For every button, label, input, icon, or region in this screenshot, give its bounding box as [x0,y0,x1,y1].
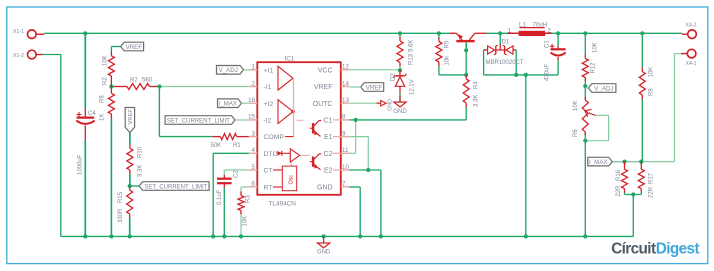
connector X1-1 [28,30,45,39]
label C1 [545,40,551,48]
junction C4 top [83,31,87,35]
wire collector bus to R4 [356,119,467,121]
wire IC pin 10 E2 to GND rail [349,170,381,236]
wire VREF flag to R2 [111,47,120,52]
svg-text:50K: 50K [211,143,222,149]
junction bottom rail R15 [128,234,132,238]
svg-text:R13: R13 [409,53,415,65]
svg-text:SET_CURRENT_LIMIT: SET_CURRENT_LIMIT [144,184,207,190]
svg-text:R5: R5 [445,40,451,48]
wire ground return to GND rail [525,75,527,237]
junction collectors C1+C2 [354,118,358,122]
svg-text:X4-2: X4-2 [686,23,697,29]
svg-text:+I1: +I1 [264,67,274,74]
svg-text:I_MAX: I_MAX [218,101,237,108]
wire R6 wiper loop [585,115,608,140]
svg-text:E1: E1 [324,134,333,141]
svg-text:10K: 10K [649,67,655,78]
label R4 [474,81,480,89]
junction V_ADJ node [583,84,587,88]
connector X1-2 [28,50,43,59]
wire VIN top rail X1-1 to transistor [44,32,449,34]
svg-text:V_ADJ: V_ADJ [594,85,613,92]
junction bottom rail C4 [83,234,87,238]
wire IC pin 6 RT to R3 [241,187,249,192]
ground GND below IC [317,236,331,255]
label R7 value 560 [142,78,153,84]
wire rail to C1 [557,33,559,46]
svg-text:R17: R17 [649,172,655,184]
junction bottom rail R6 [583,234,587,238]
svg-text:VCC: VCC [318,67,333,74]
resistor R4 [463,75,469,107]
wire I_MAX node to X4-1 [612,54,681,162]
label IC1 [285,56,295,63]
junction ground return drop [524,73,528,77]
junction transistor base upper [464,48,468,52]
wire node A to IC pin 2 (-I1) [159,86,249,88]
svg-text:11: 11 [342,147,349,154]
IC1 internal bus [285,78,310,155]
junction R5 top [437,31,441,35]
junction bottom rail D1 return [524,234,528,238]
diode D2 zener 12.1V [394,70,407,102]
IC1 comparator 2 [278,100,293,124]
IC1 right pin numbers 12 14 13 8 9 11 10 7 [342,64,349,188]
junction bottom rail emitters [379,234,383,238]
wire R4 to collector bus [465,107,467,120]
label X4-1 [686,61,697,67]
wire X1-2 to GND rail [43,55,61,237]
svg-text:3.3K: 3.3K [138,165,144,177]
wire rail to R12 [584,33,586,54]
IC1 oscillator block [273,166,297,191]
label L1 [519,22,526,29]
label X1-1 [13,29,24,35]
svg-text:70uH: 70uH [533,22,548,29]
svg-text:5: 5 [252,164,256,171]
wire shunt node to GND rail [632,195,634,237]
wire D1 right anode to GND wire [514,50,516,75]
junction R13 top [398,31,402,35]
svg-text:+I2: +I2 [264,101,274,108]
wire IC pin 12 VCC to D2 node [349,69,400,71]
svg-text:10K: 10K [573,100,579,111]
label R10 value 3.3K [138,165,144,177]
svg-text:6: 6 [252,181,256,188]
svg-text:X4-1: X4-1 [686,61,697,67]
svg-text:X1-1: X1-1 [13,29,24,35]
svg-text:10K: 10K [103,55,109,66]
wire VREF flag to R10 [129,133,131,145]
junction D1 cathode [498,31,502,35]
svg-text:470uF: 470uF [545,64,551,81]
junction bottom rail GND symbol stub [322,234,326,238]
wire R12 to R6 node [584,82,586,87]
wire R5 to base node [439,66,466,75]
svg-text:IC1: IC1 [285,56,295,63]
wire R9 to I_MAX node [641,99,643,162]
junction R6 wiper/bottom [583,139,587,143]
wire R6 to GND rail [584,133,586,236]
svg-text:14: 14 [342,80,349,87]
svg-text:C2: C2 [324,151,333,158]
resistor R1 [212,134,249,140]
wire GND bottom rail [61,235,634,237]
wire IC pin 8 C1 to collector node [349,119,355,121]
resistor R8 [108,87,114,237]
label X4-2 [686,23,697,29]
net flag V_ADJ at R12 [585,84,616,93]
label R9 value 10K [649,67,655,78]
IC1 left pin names [264,67,285,191]
label R5 value 10k [445,55,451,66]
resistor R12 [582,54,588,81]
svg-text:V_ADJ: V_ADJ [219,67,238,74]
label D1 [502,40,510,46]
label X1-2 [13,53,24,59]
junction C1 top [556,31,560,35]
IC1 left pin numbers 1 2 16 15 3 4 5 6 [248,64,255,188]
svg-text:2: 2 [252,80,256,87]
svg-text:L1: L1 [519,22,526,29]
label R15 [118,191,124,203]
label D2 [391,73,397,81]
svg-text:3.3K: 3.3K [474,95,480,107]
label R2 value 10K [103,55,109,66]
svg-text:12.1V: 12.1V [410,79,416,95]
svg-text:R15: R15 [118,191,124,203]
svg-text:R8: R8 [100,95,106,103]
net flag VREF at pin 14 [349,83,384,92]
label D1 value MBR10020CT [486,60,524,66]
resistor R13 [397,37,403,67]
svg-text:560: 560 [142,78,153,84]
svg-text:1K: 1K [100,114,106,121]
resistor R17 [638,162,644,193]
svg-text:R3: R3 [246,195,252,203]
junction VCC/D2 node [398,68,402,72]
resistor R3 [238,192,244,215]
svg-text:GND: GND [393,109,407,115]
net flag SET_CURRENT_LIMIT at pin 15 [165,116,249,125]
label R15 value 330R [118,208,124,223]
net flag I_MAX at pin 16 [218,99,249,108]
wire R3 to GND rail [240,215,242,237]
transistor Q1 PNP [449,33,487,50]
svg-text:MBR10020CT: MBR10020CT [486,60,524,66]
svg-text:SET_CURRENT_LIMIT: SET_CURRENT_LIMIT [167,118,230,124]
capacitor C4 [76,33,95,236]
IC1 DTC comparator [290,149,299,166]
svg-text:OUTC: OUTC [313,101,333,108]
junction R16/R17 bottom [631,192,635,196]
wire IC pin 4 DTC to GND rail [213,153,249,236]
svg-text:7: 7 [342,181,346,188]
label R10 [138,146,144,158]
IC1 output transistor Q_a [310,120,341,137]
net flag V_ADJ at pin 1 [217,66,249,75]
wire rail to R9 [641,33,643,67]
svg-text:22R: 22R [649,186,655,198]
svg-text:D1: D1 [502,40,510,46]
IC1 right pin names [313,67,333,191]
wire IC pin 7 GND to rail [349,187,360,236]
IC1 DTC diode [277,151,291,156]
svg-text:10k: 10k [445,55,451,66]
svg-text:GND: GND [317,184,333,191]
resistor R9 [639,68,645,100]
wire rail to R5 [438,33,440,37]
label R7 [130,78,138,84]
label R13 value 5.6K [409,40,415,52]
wire IC pin 9 E1 join E2 [349,137,368,170]
svg-text:10K: 10K [243,216,249,227]
resistor R15 [127,186,133,236]
svg-text:TL494CN: TL494CN [269,201,297,208]
wire I_MAX node to R16 R17 tops [612,161,644,163]
label R3 value 10K [243,216,249,227]
svg-text:16: 16 [248,97,255,104]
wire R16 R17 bottoms join [625,193,642,195]
label R3 [246,195,252,203]
ground GND at pin 13 [377,99,394,111]
svg-text:GND: GND [317,250,331,256]
capacitor C1 [550,44,566,60]
junction bottom rail C2 [222,234,226,238]
net flag VREF at R10 [125,108,134,133]
connector X4-2 [682,30,696,39]
junction R17/R9 top [639,160,643,164]
label R17 [649,172,655,184]
capacitor C2 [217,175,232,188]
svg-text:R9: R9 [649,88,655,96]
svg-text:0.1uF: 0.1uF [217,189,223,205]
net flag VREF at R2 [121,42,144,51]
wire C2 to GND rail [223,188,225,237]
svg-text:CT: CT [264,168,273,175]
label R17 value 22R [649,186,655,198]
ground GND below D2 [393,96,407,115]
resistor R2 [108,51,114,87]
svg-text:22R: 22R [616,185,622,197]
svg-text:4: 4 [252,147,256,154]
wire C1 to ground return [557,60,559,75]
svg-text:R6: R6 [573,129,579,137]
label C2 value 0.1uF [217,189,223,205]
label D2 value 12.1V [410,79,416,95]
svg-text:-I1: -I1 [264,84,272,91]
svg-text:9: 9 [342,130,346,137]
svg-text:10: 10 [342,164,349,171]
op-amp IC U1 TL494CN body [249,62,349,195]
svg-text:C2: C2 [234,170,240,178]
net flag SET_CURRENT_LIMIT lower [130,182,209,191]
svg-text:5.6K: 5.6K [409,40,415,52]
svg-text:C1: C1 [545,40,551,48]
junction bottom rail R8 [109,234,113,238]
IC1 output transistor Q_b [310,153,341,170]
wire D1/C1 ground return [484,74,558,76]
svg-text:VREF: VREF [128,109,134,125]
svg-text:E2: E2 [324,168,333,175]
resistor R5 [436,38,442,67]
svg-text:R4: R4 [474,81,480,89]
label L1 value 70uH [533,22,548,29]
svg-text:12: 12 [342,64,349,71]
label R6 value 10K [573,100,579,111]
junction bottom rail DTC wire [211,234,215,238]
wire VOUT top rail transistor to X4-2 [487,32,683,34]
junction emitters E1+E2 [366,168,370,172]
label TL494CN [269,201,297,208]
wire transistor base node [465,44,467,75]
wire V_ADJ node to R6 [584,86,586,99]
svg-text:10K: 10K [593,42,599,53]
svg-text:-I2: -I2 [264,118,272,125]
svg-text:330R: 330R [118,208,124,223]
svg-text:Digest: Digest [656,240,700,257]
junction bottom rail R3 [239,234,243,238]
svg-text:1000uF: 1000uF [78,154,84,175]
svg-text:Osc: Osc [288,175,294,185]
IC1 internal node dot [291,110,295,114]
label R8 [100,95,106,103]
wire D1 left anode to GND wire [484,50,486,75]
svg-text:VREF: VREF [366,84,383,91]
svg-text:DTC: DTC [264,151,278,158]
svg-text:R12: R12 [591,62,597,74]
label R4 value 3.3K [474,95,480,107]
wire rail to R13 [399,33,401,37]
svg-text:R2: R2 [103,77,109,85]
svg-text:R1: R1 [233,143,241,149]
junction R9 top [640,31,644,35]
junction bottom rail IC pin7 [358,234,362,238]
label R8 value 1K [100,114,106,121]
svg-text:Círcuit: Círcuit [611,240,656,257]
svg-text:13: 13 [342,97,349,104]
label C1 value 470uF [545,64,551,81]
svg-text:X1-2: X1-2 [13,53,24,59]
L1 pin number 1 [508,29,512,35]
label R16 value 22R [616,185,622,197]
svg-text:R16: R16 [616,169,622,181]
svg-text:8: 8 [342,114,346,121]
svg-text:C1: C1 [324,118,333,125]
label R5 [445,40,451,48]
potentiometer R6 10K [582,97,595,135]
junction R2/R7/R8 node [109,84,113,88]
resistor R7 [113,84,158,90]
junction R12 top [583,31,587,35]
svg-text:COMP: COMP [264,134,285,141]
svg-text:RT: RT [264,184,273,191]
label R1 [233,143,241,149]
diode D1 MBR10020CT [484,44,517,55]
junction D1 right anode [514,73,518,77]
label R12 value 10K [593,42,599,53]
label R13 [409,53,415,65]
junction R16 top [622,160,626,164]
label R16 [616,169,622,181]
junction SET_CURRENT_LIMIT node [128,184,132,188]
label R12 [591,62,597,74]
inductor L1 [507,28,552,36]
wire node A to R1 (feedback) [159,87,212,137]
svg-text:C4: C4 [88,111,96,117]
label C4 [88,111,96,117]
svg-text:I_MAX: I_MAX [589,159,608,166]
svg-text:15: 15 [248,114,255,121]
label C4 value 1000uF [78,154,84,175]
label R9 [649,88,655,96]
svg-text:R10: R10 [138,146,144,158]
wire switch node to D1 cathode [499,33,501,46]
label C2 [234,170,240,178]
logo CircuitDigest [611,240,699,257]
connector X4-1 [681,49,696,58]
svg-text:1: 1 [252,64,256,71]
resistor R10 [127,144,133,186]
wire D2 node [399,67,401,71]
net flag I_MAX at shunt [588,157,613,166]
svg-text:D2: D2 [391,73,397,81]
IC1 comparator 1 [278,66,293,90]
junction base/R5/R4 node [464,73,468,77]
svg-text:VREF: VREF [126,44,143,51]
svg-text:3: 3 [252,130,256,137]
label R2 [103,77,109,85]
svg-text:R7: R7 [130,78,138,84]
L1 pin number 2 [548,29,552,35]
junction node A (R7/pin2/R1) [157,84,161,88]
label R1 value 50K [211,143,222,149]
wire IC pin 5 CT to C2 [224,170,249,175]
svg-text:VREF: VREF [314,84,333,91]
resistor R16 [622,162,628,193]
label R6 [573,129,579,137]
wire IC pin 11 C2 join C1 [349,120,355,153]
wire IC pin 13 OUTC to GND [349,102,376,104]
